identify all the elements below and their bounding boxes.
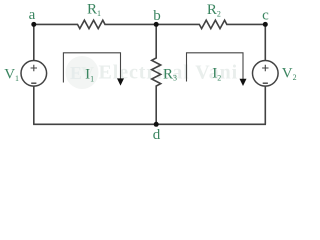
wire: V1 bottom down to bottom rail — [33, 86, 35, 124]
resistor R3 (vertical) with wires from node b to bottom rail — [152, 24, 161, 124]
svg-text:a: a — [29, 7, 36, 23]
wire: left branch node a down to V1 top — [33, 24, 35, 60]
voltage source V2 — [252, 61, 278, 87]
node d junction dot — [154, 122, 159, 127]
svg-text:b: b — [153, 8, 161, 24]
svg-text:d: d — [153, 127, 161, 143]
node a junction dot — [31, 22, 36, 27]
svg-text:c: c — [262, 8, 269, 24]
wire: top rail a-b-c with resistor R1 and R2 zigzags — [34, 20, 265, 28]
watermark logo circle EV — [66, 56, 99, 89]
mesh current loop I1 — [63, 53, 124, 86]
wire: bottom rail d — [33, 123, 266, 125]
mesh current loop I2 — [187, 53, 247, 86]
voltage source V1 — [21, 61, 47, 87]
wire: V2 bottom down to bottom rail — [264, 86, 266, 124]
node c junction dot — [263, 22, 268, 27]
wire: right branch node c down to V2 top — [264, 24, 266, 60]
node b junction dot — [154, 22, 159, 27]
